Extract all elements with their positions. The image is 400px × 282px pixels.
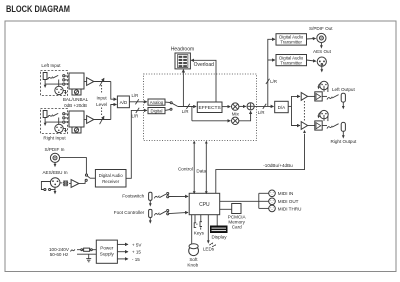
DSP dashed box xyxy=(144,74,257,141)
left input connector panel (dashed box) xyxy=(41,71,68,96)
wire tx1 to RCA out xyxy=(307,37,316,40)
XLR connector AES out xyxy=(317,57,326,73)
XLR connector AES/EBU in xyxy=(50,178,60,188)
source select switch xyxy=(165,102,178,111)
svg-text:Input: Input xyxy=(96,96,107,101)
fuse xyxy=(77,248,96,251)
wire overload from EFFECTS to meter xyxy=(191,60,216,102)
wire to XLR right xyxy=(58,118,60,125)
digital input select switch xyxy=(85,174,95,181)
wires contacts to BAL box 2 xyxy=(65,114,69,122)
svg-text:Analog: Analog xyxy=(150,100,164,105)
jack J1 left 1/4 inch xyxy=(43,73,47,89)
svg-text:- 15: - 15 xyxy=(132,257,140,262)
wire CPU to LEDs xyxy=(207,215,210,244)
svg-text:Control: Control xyxy=(178,166,193,171)
op-amp A1 left xyxy=(84,78,94,86)
svg-text:L/R: L/R xyxy=(132,93,139,98)
svg-text:L/R: L/R xyxy=(182,109,189,114)
svg-text:CPU: CPU xyxy=(199,202,210,208)
wire into A/D top xyxy=(111,82,117,100)
wire to XLR left xyxy=(58,80,60,87)
headroom meter xyxy=(175,53,190,69)
wire XLR down arrow xyxy=(54,187,57,194)
wire A/D to Analog box xyxy=(129,99,146,104)
svg-text:Left Output: Left Output xyxy=(332,87,355,92)
digital audio receiver xyxy=(95,170,126,188)
wire RCA to select switch xyxy=(60,158,87,174)
XLR connector right input xyxy=(55,124,67,132)
label Input Level xyxy=(96,85,107,115)
wires contacts to BAL box xyxy=(65,76,69,84)
svg-text:D/A: D/A xyxy=(278,105,287,110)
switch foot controller xyxy=(154,210,168,216)
svg-text:Footswitch: Footswitch xyxy=(122,193,144,198)
wire -15 xyxy=(117,258,128,260)
wire CPU to display xyxy=(216,215,218,226)
MIDI IN DIN connector xyxy=(269,190,276,197)
transformer T1 xyxy=(60,180,71,186)
soft knob xyxy=(189,244,199,256)
trim pot right xyxy=(72,127,81,133)
XLR connector left output xyxy=(318,81,329,92)
RCA connector S/PDIF in xyxy=(50,153,59,167)
balanced driver right xyxy=(308,121,323,130)
switch left input (squiggle+lever) xyxy=(48,75,58,79)
svg-text:Keys: Keys xyxy=(194,230,205,235)
svg-text:0dB +20dB: 0dB +20dB xyxy=(64,103,87,108)
wire left jack to contacts xyxy=(45,83,63,85)
output amp left (variable) xyxy=(301,93,307,101)
switch right input xyxy=(48,113,58,117)
digital audio transmitter 1 xyxy=(276,34,307,45)
svg-text:Mix: Mix xyxy=(232,112,240,117)
svg-text:Supply: Supply xyxy=(100,252,115,257)
svg-text:A/D: A/D xyxy=(120,100,128,105)
svg-text:L/R: L/R xyxy=(132,113,139,118)
wire tx2 to XLR out xyxy=(307,60,316,61)
adder sum node xyxy=(247,103,254,110)
svg-text:MIDI OUT: MIDI OUT xyxy=(278,199,299,204)
svg-text:Overload: Overload xyxy=(194,62,215,68)
wire switch to EFFECTS xyxy=(178,104,196,109)
gain link dashed wire xyxy=(303,101,305,121)
svg-text:BLOCK DIAGRAM: BLOCK DIAGRAM xyxy=(6,4,70,15)
op-amp A2 right xyxy=(84,116,94,124)
svg-text:Left Input: Left Input xyxy=(41,63,61,68)
svg-text:EFFECTS: EFFECTS xyxy=(198,105,221,111)
digital audio transmitter 2 xyxy=(276,55,307,66)
wire D/A split to output amps xyxy=(288,96,300,125)
RCA connector S/PDIF out xyxy=(317,33,326,48)
svg-text:+ 5V: + 5V xyxy=(132,242,143,247)
Analog source box xyxy=(148,99,165,105)
wire level control -10dBu/+4dBu xyxy=(216,130,306,193)
wire signal tap to headroom meter xyxy=(182,70,184,107)
trim pot left xyxy=(72,89,81,95)
wire EFFECTS to mix multiplier xyxy=(222,106,230,108)
PCMCIA card slot xyxy=(232,204,241,214)
label Soft Knob xyxy=(187,257,198,267)
MIDI THRU DIN connector xyxy=(269,205,276,212)
wire CPU to PCMCIA xyxy=(220,208,232,210)
svg-text:Digital Audio: Digital Audio xyxy=(99,173,123,178)
attenuator left (variable) xyxy=(100,78,104,86)
ground lift loop xyxy=(41,182,55,191)
wire amp2 to corner + attenuator right xyxy=(94,119,111,121)
svg-text:Power: Power xyxy=(100,246,113,251)
svg-text:Right Input: Right Input xyxy=(43,136,66,141)
LED rays xyxy=(209,242,216,247)
svg-text:Display: Display xyxy=(211,234,227,239)
svg-text:AES Out: AES Out xyxy=(313,49,332,54)
display xyxy=(210,226,228,234)
input amp block U1 BAL/UNBAL xyxy=(69,73,84,89)
XLR connector left input xyxy=(55,86,67,94)
balanced driver left xyxy=(308,92,323,101)
svg-text:Digital: Digital xyxy=(151,109,163,114)
wire Control bus xyxy=(193,141,196,195)
svg-text:Knob: Knob xyxy=(187,262,198,267)
jack right output xyxy=(322,122,345,138)
output amp right (variable) xyxy=(301,122,307,130)
svg-text:Headroom: Headroom xyxy=(171,47,194,53)
svg-text:50-60 Hz: 50-60 Hz xyxy=(50,252,69,257)
svg-text:S/PDIF Out: S/PDIF Out xyxy=(309,26,333,31)
svg-text:AES/EBU In: AES/EBU In xyxy=(42,170,67,175)
wire amp to select contact xyxy=(79,181,85,183)
wire +5V xyxy=(117,243,128,245)
svg-text:Data: Data xyxy=(196,168,206,173)
wire dry to multiplier X2 xyxy=(192,120,230,122)
wire adder to D/A xyxy=(254,104,273,109)
contact circles left xyxy=(63,75,65,86)
svg-text:S/PDIF In: S/PDIF In xyxy=(45,147,65,152)
svg-text:Right Output: Right Output xyxy=(331,139,358,144)
svg-text:MIDI THRU: MIDI THRU xyxy=(278,206,302,211)
svg-text:LEDs: LEDs xyxy=(203,247,215,252)
wire mains neutral xyxy=(77,253,96,255)
svg-text:Transmitter: Transmitter xyxy=(280,60,302,65)
svg-text:Soft: Soft xyxy=(189,257,198,262)
wire footswitch to CPU xyxy=(169,195,188,197)
svg-text:Transmitter: Transmitter xyxy=(280,40,302,45)
wire CPU to soft knob xyxy=(191,215,193,245)
D/A converter xyxy=(275,101,289,112)
wire X2 to adder xyxy=(239,111,251,121)
wire right jack to contacts xyxy=(45,121,63,123)
svg-text:L/R: L/R xyxy=(258,110,265,115)
MIDI OUT DIN connector xyxy=(269,198,276,205)
svg-text:Card: Card xyxy=(232,225,242,230)
wire bypass (dry path) xyxy=(191,107,193,121)
attenuator right (variable) xyxy=(100,116,104,124)
svg-text:-10dBu/+4dBu: -10dBu/+4dBu xyxy=(263,163,293,168)
multiplier X2 (dry mix) xyxy=(232,117,239,124)
label mains voltage xyxy=(49,247,75,257)
wire Data bus xyxy=(205,141,208,195)
wire CPU to MIDI trunk xyxy=(220,193,269,208)
svg-text:Foot Controller: Foot Controller xyxy=(114,210,145,215)
ground xyxy=(86,254,91,262)
wire X1 to adder xyxy=(239,105,246,107)
svg-text:Level: Level xyxy=(96,102,107,107)
wire trunk to transmitters xyxy=(266,39,275,106)
XLR connector right output xyxy=(318,110,329,121)
svg-text:+ 15: + 15 xyxy=(132,250,142,255)
switch footswitch xyxy=(154,192,168,198)
multiplier X1 (wet mix) xyxy=(232,103,239,110)
label PCMCIA Memory Card xyxy=(228,215,247,230)
wire into A/D bottom xyxy=(111,105,117,120)
right input connector panel (dashed box) xyxy=(41,109,68,134)
jack footswitch xyxy=(149,192,152,206)
op-amp A3 AES input xyxy=(71,180,79,188)
wire foot controller to CPU xyxy=(169,212,188,213)
svg-text:L/R: L/R xyxy=(270,79,277,84)
jack foot controller xyxy=(149,209,152,223)
CPU xyxy=(189,193,220,214)
keys (buttons) xyxy=(194,222,202,230)
contact circles right xyxy=(63,113,65,124)
Digital source box xyxy=(148,108,165,114)
wire +15 xyxy=(117,251,128,253)
power supply xyxy=(96,240,117,263)
svg-text:MIDI IN: MIDI IN xyxy=(278,191,294,196)
EFFECTS processor xyxy=(197,102,222,113)
A/D converter xyxy=(117,96,129,108)
svg-text:BAL/UNBAL: BAL/UNBAL xyxy=(63,97,89,102)
jack left output xyxy=(322,93,345,109)
input amp block U2 BAL/UNBAL xyxy=(69,111,84,127)
jack J2 right 1/4 inch xyxy=(43,111,47,127)
svg-text:Receiver: Receiver xyxy=(102,179,120,184)
wire Digital Audio Receiver to Digital box xyxy=(126,108,147,179)
wire amp to corner + attenuator left xyxy=(94,81,111,83)
wire CPU to keys xyxy=(195,215,201,223)
